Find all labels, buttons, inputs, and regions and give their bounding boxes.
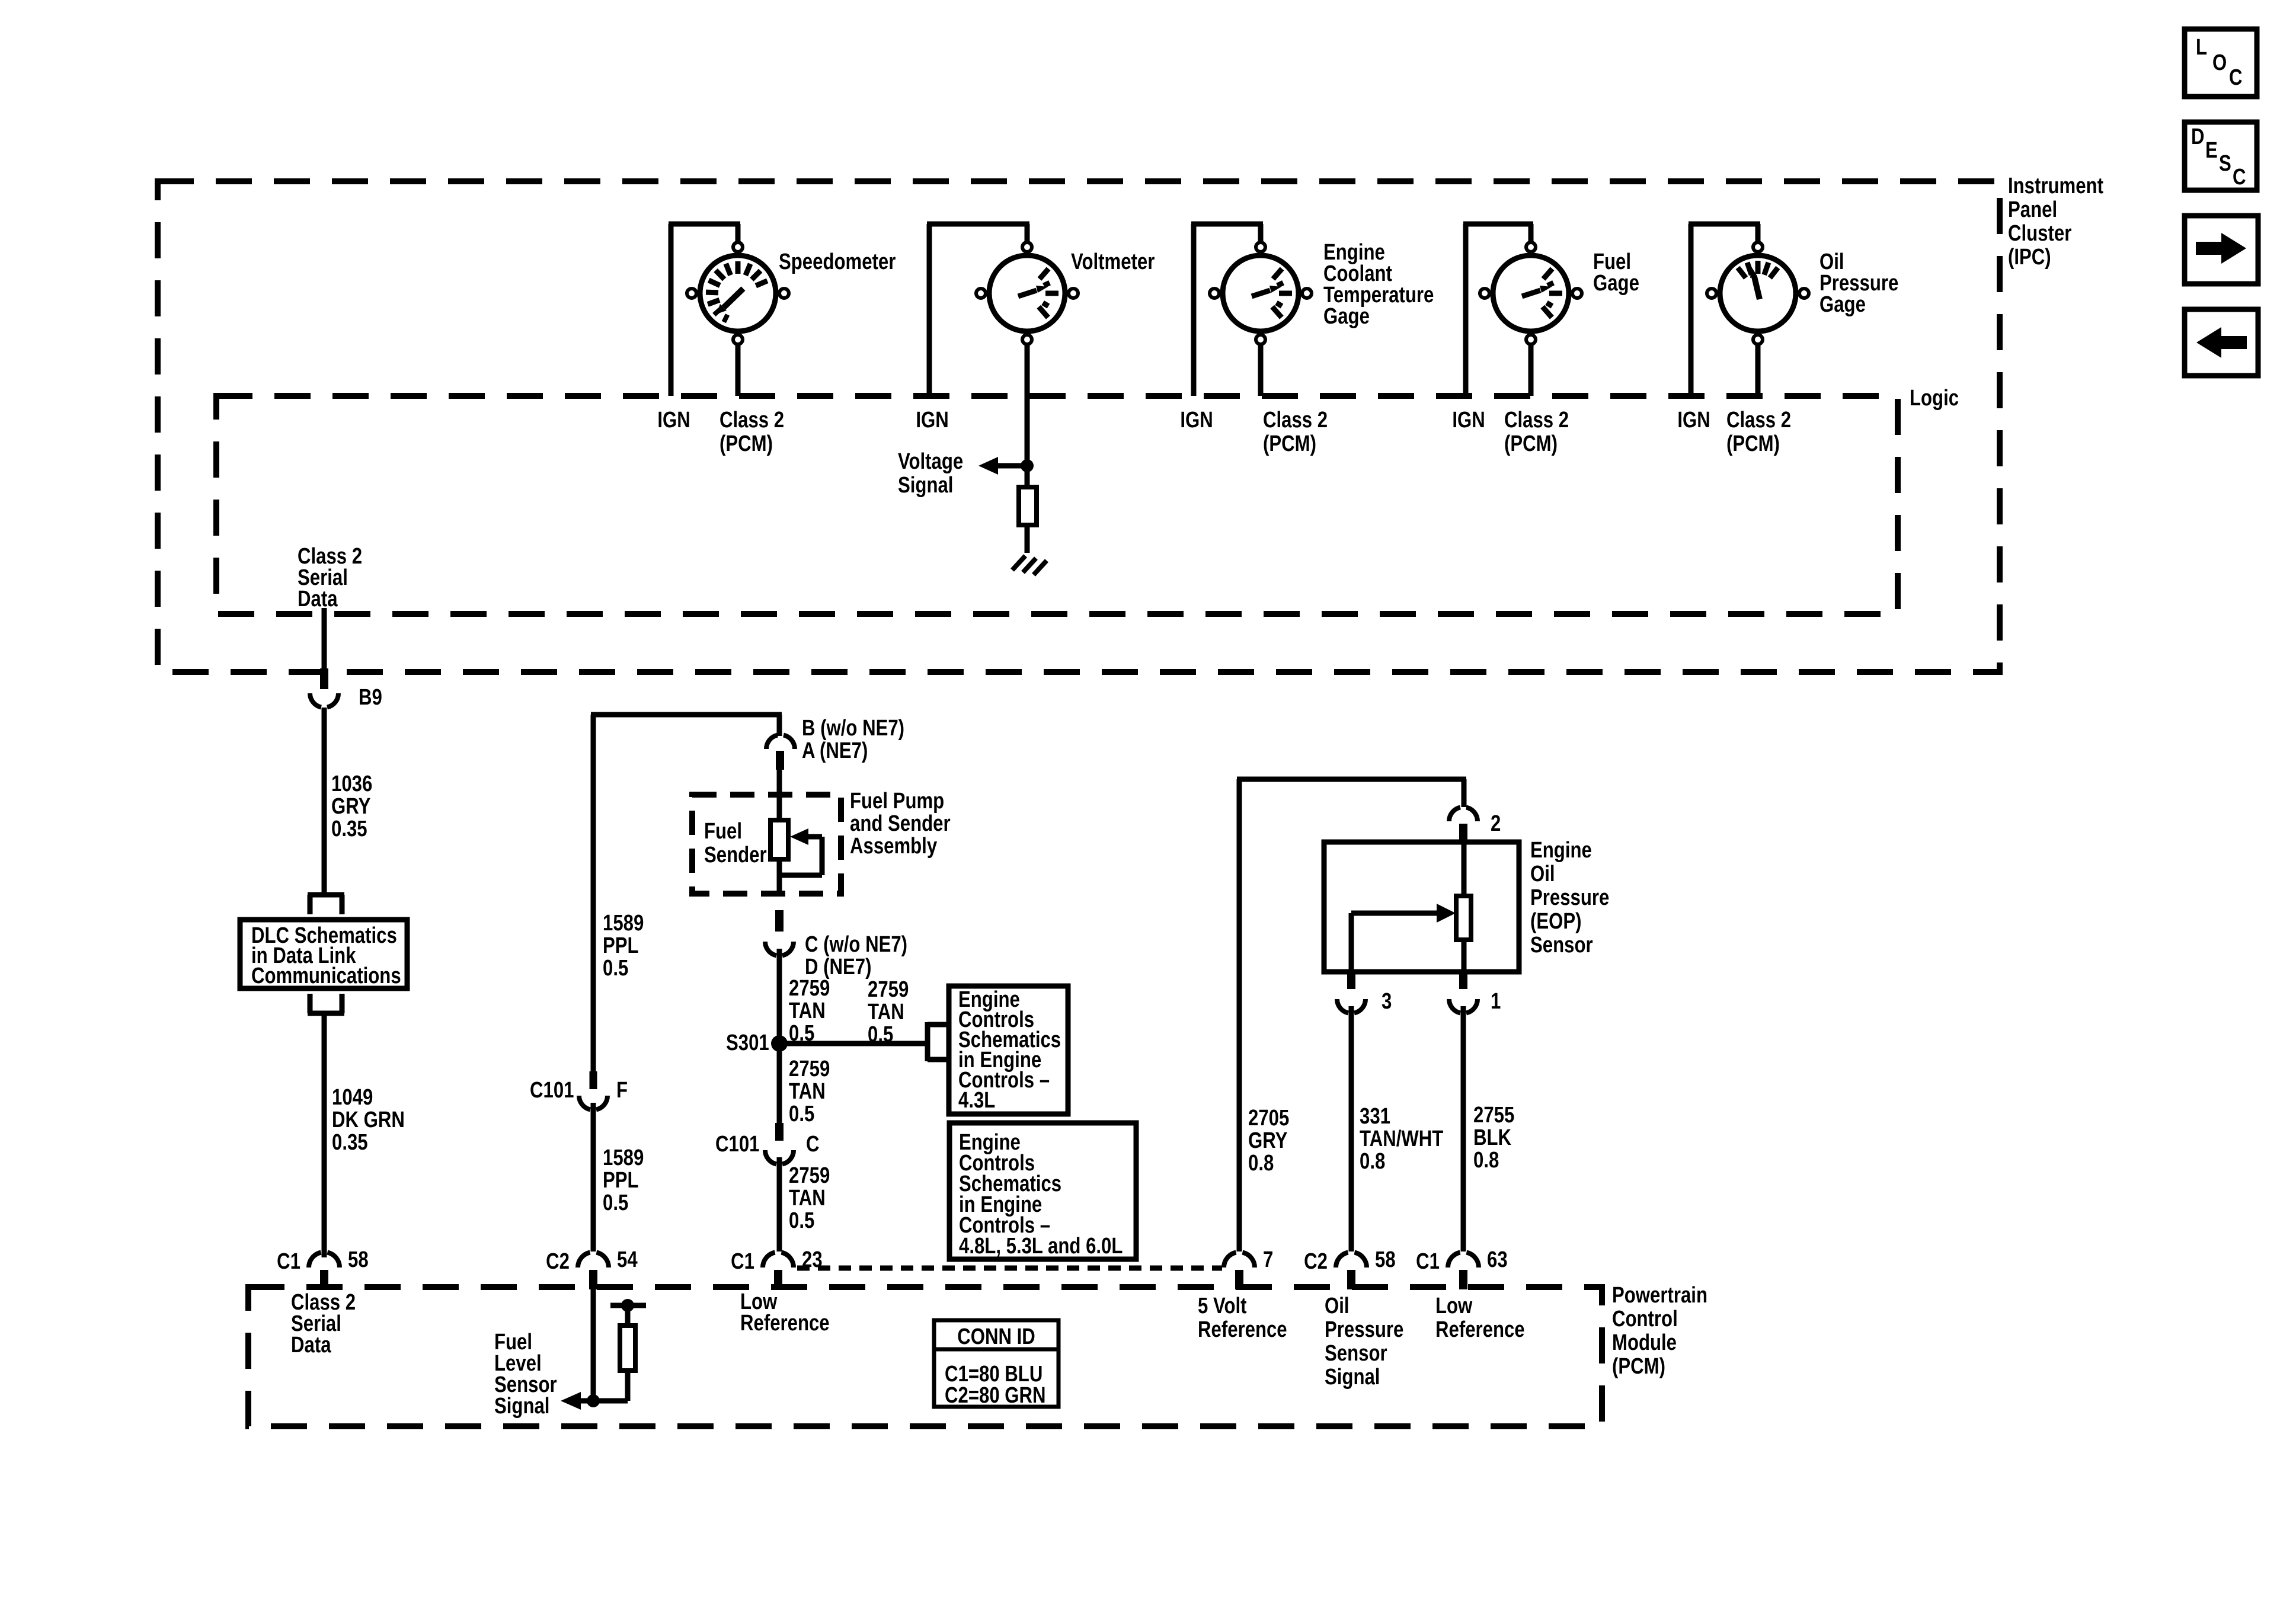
- svg-text:(PCM): (PCM): [1612, 1354, 1665, 1379]
- label: Powertrain Control Module (PCM): [1612, 1283, 1707, 1379]
- gauge Oil: [1707, 242, 1809, 344]
- svg-text:C2: C2: [546, 1249, 570, 1274]
- Logic dashed box inside IPC: [216, 396, 1898, 614]
- label: Class 2 (PCM) under ECT: [1263, 408, 1328, 456]
- connector 1 of EOP sensor: [1449, 974, 1478, 1013]
- svg-text:1036: 1036: [331, 772, 372, 796]
- svg-text:Module: Module: [1612, 1330, 1677, 1355]
- connector PCM pin C1 63: [1448, 1253, 1479, 1289]
- svg-text:Oil: Oil: [1325, 1294, 1350, 1318]
- svg-text:Engine: Engine: [1530, 838, 1592, 863]
- svg-text:Fuel: Fuel: [704, 819, 742, 844]
- svg-text:IGN: IGN: [1180, 408, 1213, 433]
- svg-text:(PCM): (PCM): [1504, 431, 1558, 456]
- svg-text:0.5: 0.5: [603, 1190, 628, 1215]
- wire: IGN feed for Fuel gauge: [1463, 224, 1533, 396]
- svg-text:(EOP): (EOP): [1530, 909, 1582, 934]
- svg-text:0.5: 0.5: [789, 1102, 814, 1126]
- label: 2 (EOP pin): [1491, 811, 1501, 836]
- wire: 2705 GRY 5 volt reference riser: [1237, 779, 1466, 1251]
- svg-text:0.35: 0.35: [331, 817, 367, 841]
- connector PCM pin C2 58: [1336, 1253, 1367, 1289]
- svg-text:TAN: TAN: [789, 1186, 826, 1211]
- svg-text:2759: 2759: [789, 1163, 830, 1188]
- svg-text:Reference: Reference: [1435, 1317, 1525, 1342]
- label: Oil Pressure Gage: [1819, 249, 1898, 317]
- label: pin 54: [617, 1247, 638, 1272]
- svg-text:TAN/WHT: TAN/WHT: [1360, 1126, 1443, 1151]
- wire: 1589 PPL from C101 to PCM C2-54: [591, 1103, 596, 1251]
- wire: bottom lead of Fuel gauge: [1528, 344, 1534, 396]
- svg-text:IGN: IGN: [1452, 408, 1485, 433]
- svg-text:3: 3: [1382, 989, 1392, 1014]
- label: Low Reference (C1-23): [740, 1289, 830, 1336]
- svg-text:TAN: TAN: [868, 1000, 904, 1025]
- connector C101 F pin: [590, 1071, 597, 1089]
- svg-text:331: 331: [1360, 1104, 1390, 1129]
- svg-text:Class 2: Class 2: [1726, 408, 1791, 433]
- gauge Fuel: [1480, 242, 1582, 344]
- wire: class 2 serial data from IPC logic: [322, 608, 327, 668]
- svg-text:2759: 2759: [789, 1057, 830, 1081]
- resistor: EOP sensing element: [1456, 842, 1471, 972]
- label: 1589 PPL 0.5 (lower): [603, 1145, 644, 1215]
- node: fuel level sensor signal junction: [587, 1394, 600, 1407]
- svg-text:2705: 2705: [1248, 1106, 1289, 1131]
- label: IGN (Fuel): [1452, 408, 1485, 433]
- svg-text:C: C: [2233, 165, 2246, 190]
- label: IGN (ECT): [1180, 408, 1213, 433]
- svg-text:2755: 2755: [1473, 1103, 1514, 1128]
- svg-text:Assembly: Assembly: [850, 834, 938, 859]
- svg-text:C (w/o NE7): C (w/o NE7): [805, 932, 907, 957]
- svg-text:7: 7: [1263, 1247, 1273, 1272]
- label: 1589 PPL 0.5 (upper): [603, 911, 644, 981]
- svg-text:(PCM): (PCM): [720, 431, 773, 456]
- connector C101 C: [765, 1150, 794, 1164]
- svg-text:F: F: [616, 1078, 628, 1103]
- label: B (w/o NE7) / A (NE7): [802, 716, 904, 763]
- svg-text:Communications: Communications: [251, 964, 401, 988]
- label: Class 2 (PCM) under Oil: [1726, 408, 1791, 456]
- wire: 2755 BLK from EOP-1 to PCM C1-63: [1461, 1006, 1466, 1251]
- svg-text:C2=80 GRN: C2=80 GRN: [945, 1383, 1046, 1408]
- svg-text:58: 58: [348, 1247, 369, 1272]
- label: Speedometer: [779, 249, 896, 274]
- ground: chassis ground below voltmeter resistor: [1012, 556, 1047, 575]
- label: Engine Oil Pressure (EOP) Sensor: [1530, 838, 1609, 958]
- label: Fuel Sender: [704, 819, 767, 868]
- svg-text:Panel: Panel: [2008, 197, 2057, 222]
- svg-text:Reference: Reference: [740, 1311, 830, 1336]
- wire: dashed link between PCM C1-23 and pin 7: [797, 1266, 1222, 1271]
- resistor: PCM fuel level pull-up: [593, 1299, 646, 1401]
- svg-text:(PCM): (PCM): [1726, 431, 1780, 456]
- label: pin 58: [1375, 1247, 1396, 1272]
- connector C101 F: [579, 1096, 607, 1110]
- icon box: DESC: [2185, 122, 2257, 190]
- wire: circuit 1049 DK GRN 0.35: [322, 1013, 327, 1257]
- connector B (w/o NE7) / A (NE7): [766, 735, 795, 770]
- wire: 331 TAN/WHT from EOP-3 to PCM C2-58: [1349, 1006, 1354, 1251]
- label: C2 (PCM connector): [546, 1249, 570, 1274]
- svg-text:C101: C101: [530, 1078, 574, 1103]
- Powertrain Control Module (PCM) dashed box: [248, 1287, 1602, 1426]
- label: C1 (PCM connector): [731, 1249, 754, 1274]
- label: IGN (Oil): [1677, 408, 1710, 433]
- svg-text:1589: 1589: [603, 1145, 644, 1170]
- connector 3 of EOP sensor: [1337, 974, 1366, 1013]
- label: pin 63: [1487, 1247, 1508, 1272]
- connector staple out of DLC box: [308, 994, 344, 1013]
- svg-text:Gage: Gage: [1593, 271, 1639, 296]
- svg-text:IGN: IGN: [657, 408, 690, 433]
- label: 1 (EOP pin): [1491, 989, 1501, 1014]
- box: Engine Controls Schematics in Engine Controls - 4.3L: [949, 986, 1068, 1114]
- resistor: fuel sender element: [770, 820, 788, 859]
- label: 2755 BLK 0.8: [1473, 1103, 1514, 1173]
- svg-text:1: 1: [1491, 989, 1501, 1014]
- box: Engine Controls Schematics in Engine Controls - 4.8L 5.3L 6.0L: [949, 1123, 1136, 1259]
- svg-text:E: E: [2205, 138, 2218, 163]
- connector PCM pin C1 58: [309, 1253, 340, 1289]
- svg-text:A (NE7): A (NE7): [802, 738, 868, 763]
- label: Engine Coolant Temperature Gage: [1323, 240, 1434, 329]
- label: B9: [359, 685, 382, 710]
- connector C (w/o NE7) / D (NE7): [765, 942, 794, 956]
- svg-text:(PCM): (PCM): [1263, 431, 1316, 456]
- svg-text:Fuel Pump: Fuel Pump: [850, 789, 944, 814]
- wire: bottom lead of Voltmeter gauge: [1025, 344, 1030, 466]
- connector PCM pin 7: [1224, 1253, 1255, 1289]
- box: Fuel Pump and Sender Assembly (dashed): [692, 795, 841, 894]
- wire: 2759 TAN from C/D to S301: [777, 949, 782, 1044]
- svg-text:0.8: 0.8: [1473, 1148, 1499, 1173]
- svg-text:Signal: Signal: [494, 1394, 549, 1419]
- label: 2759 TAN 0.5 (below S301): [789, 1057, 830, 1126]
- svg-text:PPL: PPL: [603, 1168, 639, 1193]
- svg-text:C: C: [2229, 65, 2243, 90]
- svg-text:IGN: IGN: [1677, 408, 1710, 433]
- label: Voltmeter: [1071, 249, 1155, 274]
- svg-text:Gage: Gage: [1323, 304, 1370, 329]
- wire: bottom lead of ECT gauge: [1258, 344, 1264, 396]
- Instrument Panel Cluster (IPC) dashed boundary box: [158, 181, 2000, 672]
- label: C (w/o NE7) / D (NE7): [805, 932, 907, 980]
- resistor: voltmeter internal resistor: [1019, 466, 1037, 553]
- svg-text:Class 2: Class 2: [1504, 408, 1569, 433]
- label: Class 2 (PCM) under Speedometer: [720, 408, 784, 456]
- svg-text:0.35: 0.35: [332, 1130, 368, 1155]
- svg-text:C1: C1: [1416, 1249, 1440, 1274]
- svg-text:L: L: [2196, 35, 2207, 60]
- wire: bottom lead of Speedometer gauge: [736, 344, 741, 396]
- svg-text:Sensor: Sensor: [1325, 1341, 1387, 1366]
- svg-text:Speedometer: Speedometer: [779, 249, 896, 274]
- wire: into fuel pump assembly: [777, 770, 782, 820]
- svg-text:Signal: Signal: [1325, 1365, 1380, 1390]
- connector bracket into 4.3L box: [928, 1022, 949, 1061]
- icon box: right arrow: [2185, 216, 2258, 284]
- svg-text:C1: C1: [731, 1249, 754, 1274]
- svg-text:Data: Data: [298, 587, 338, 612]
- label: 5 Volt Reference: [1198, 1294, 1287, 1342]
- wire: C2-54 into PCM: [591, 1289, 596, 1401]
- svg-text:2759: 2759: [789, 976, 830, 1001]
- wire: 2759 TAN from S301 to C101 C: [777, 1044, 782, 1123]
- svg-text:2: 2: [1491, 811, 1501, 836]
- svg-text:TAN: TAN: [789, 1079, 826, 1104]
- svg-text:O: O: [2212, 50, 2227, 75]
- label: IGN (Voltmeter): [916, 408, 948, 433]
- svg-text:4.8L, 5.3L and 6.0L: 4.8L, 5.3L and 6.0L: [959, 1234, 1123, 1259]
- connector C (w/o NE7) / D (NE7) pin: [775, 910, 784, 932]
- svg-text:B9: B9: [359, 685, 382, 710]
- svg-text:DK GRN: DK GRN: [332, 1108, 405, 1132]
- label: Logic: [1910, 386, 1959, 411]
- connector C101 C pin: [775, 1123, 784, 1141]
- label: 3 (EOP pin): [1382, 989, 1392, 1014]
- svg-text:Cluster: Cluster: [2008, 221, 2071, 246]
- svg-text:Logic: Logic: [1910, 386, 1959, 411]
- svg-text:54: 54: [617, 1247, 638, 1272]
- svg-text:0.8: 0.8: [1360, 1149, 1385, 1174]
- box: DLC Schematics in Data Link Communications: [240, 920, 407, 988]
- label: S301: [726, 1030, 769, 1055]
- wire: IGN feed for ECT gauge: [1191, 224, 1263, 396]
- label: Class 2 Serial Data (PCM): [291, 1290, 356, 1358]
- label: C1 (PCM connector): [1416, 1249, 1440, 1274]
- label: C101 / F: [530, 1078, 628, 1103]
- wire: 2759 TAN from S301 to engine controls 4.3L: [779, 1041, 928, 1046]
- svg-text:1589: 1589: [603, 911, 644, 936]
- svg-text:GRY: GRY: [1248, 1128, 1287, 1153]
- connector PCM pin C2 54: [578, 1253, 609, 1289]
- label: Fuel Gage: [1593, 249, 1639, 296]
- label: Instrument Panel Cluster (IPC): [2008, 174, 2103, 270]
- label: 2759 TAN 0.5 (to 4.3L): [868, 977, 909, 1047]
- svg-text:D: D: [2191, 124, 2205, 149]
- svg-text:0.8: 0.8: [1248, 1151, 1274, 1176]
- svg-text:Pressure: Pressure: [1530, 885, 1609, 910]
- svg-text:GRY: GRY: [331, 794, 370, 819]
- svg-text:Class 2: Class 2: [720, 408, 784, 433]
- svg-text:C: C: [806, 1132, 820, 1157]
- svg-text:Powertrain: Powertrain: [1612, 1283, 1707, 1308]
- connector staple into DLC box: [308, 895, 344, 914]
- label: 1049 DK GRN 0.35: [332, 1085, 405, 1155]
- wire: IGN feed for Voltmeter gauge: [927, 224, 1029, 396]
- label: Fuel Pump and Sender Assembly: [850, 789, 951, 859]
- svg-text:0.5: 0.5: [789, 1208, 814, 1233]
- wire: fuel level sensor signal arrow: [561, 1392, 593, 1410]
- wire: IGN feed for Oil gauge: [1689, 224, 1760, 396]
- connector B9: [310, 693, 338, 708]
- svg-text:Sensor: Sensor: [1530, 933, 1593, 958]
- label: C101 / C: [715, 1132, 820, 1157]
- svg-text:S301: S301: [726, 1030, 769, 1055]
- wire: circuit 1036 GRY 0.35: [322, 708, 327, 895]
- label: pin 23: [802, 1247, 823, 1272]
- svg-text:58: 58: [1375, 1247, 1396, 1272]
- label: C1 (PCM connector): [277, 1249, 300, 1274]
- svg-text:Data: Data: [291, 1333, 331, 1358]
- svg-text:5 Volt: 5 Volt: [1198, 1294, 1247, 1318]
- wire: IGN feed for Speedometer gauge: [669, 224, 740, 396]
- svg-text:(IPC): (IPC): [2008, 245, 2051, 270]
- label: 2759 TAN 0.5 (above S301): [789, 976, 830, 1046]
- svg-text:Signal: Signal: [898, 473, 953, 498]
- label: 331 TAN/WHT 0.8: [1360, 1104, 1443, 1174]
- svg-text:Voltmeter: Voltmeter: [1071, 249, 1155, 274]
- label: IGN (Speedometer): [657, 408, 690, 433]
- svg-text:Class 2: Class 2: [1263, 408, 1328, 433]
- svg-text:Reference: Reference: [1198, 1317, 1287, 1342]
- label: pin 7: [1263, 1247, 1273, 1272]
- wire: 2759 TAN from C101 to PCM C1-23: [777, 1157, 782, 1251]
- wire: fuel sender wiper arm with arrow: [777, 828, 822, 896]
- label: Fuel Level Sensor Signal: [494, 1330, 557, 1419]
- icon box: left arrow: [2185, 309, 2258, 376]
- splice S301: [771, 1035, 788, 1052]
- label: Oil Pressure Sensor Signal: [1325, 1294, 1403, 1390]
- icon box: LOC: [2185, 29, 2257, 97]
- svg-text:CONN ID: CONN ID: [957, 1324, 1035, 1349]
- svg-text:C2: C2: [1304, 1249, 1328, 1274]
- svg-text:0.5: 0.5: [603, 956, 628, 981]
- wire: 1589 PPL riser to fuel sender: [591, 715, 782, 1071]
- svg-text:PPL: PPL: [603, 933, 639, 958]
- svg-text:1049: 1049: [332, 1085, 373, 1110]
- connector PCM pin C1 23: [763, 1253, 794, 1289]
- svg-text:C101: C101: [715, 1132, 759, 1157]
- svg-text:Pressure: Pressure: [1325, 1317, 1403, 1342]
- label: 2705 GRY 0.8: [1248, 1106, 1289, 1176]
- svg-text:Oil: Oil: [1530, 862, 1555, 886]
- label: Class 2 (PCM) under Fuel: [1504, 408, 1569, 456]
- node: voltage signal junction: [1021, 459, 1034, 472]
- label: 1036 GRY 0.35: [331, 772, 372, 841]
- svg-text:63: 63: [1487, 1247, 1508, 1272]
- svg-text:Control: Control: [1612, 1307, 1678, 1331]
- svg-text:Sender: Sender: [704, 843, 767, 868]
- svg-text:BLK: BLK: [1473, 1125, 1511, 1150]
- svg-text:Gage: Gage: [1819, 292, 1866, 317]
- svg-text:0.5: 0.5: [868, 1022, 893, 1047]
- svg-text:Low: Low: [1435, 1294, 1473, 1318]
- label: Low Reference (C1-63): [1435, 1294, 1525, 1342]
- label: C2 (PCM connector): [1304, 1249, 1328, 1274]
- svg-text:B (w/o NE7): B (w/o NE7): [802, 716, 904, 741]
- svg-text:Voltage: Voltage: [898, 449, 963, 474]
- wire: bottom lead of Oil gauge: [1755, 344, 1761, 396]
- box: CONN ID legend: [934, 1320, 1059, 1408]
- svg-text:S: S: [2219, 151, 2231, 176]
- gauge Voltmeter: [976, 242, 1078, 344]
- wire: EOP wiper arm with arrow: [1351, 904, 1456, 972]
- wire: voltage signal arrow: [978, 457, 1027, 475]
- label: Voltage Signal: [898, 449, 963, 498]
- svg-text:IGN: IGN: [916, 408, 948, 433]
- box: Engine Oil Pressure (EOP) Sensor: [1324, 842, 1519, 972]
- label: 2759 TAN 0.5 (below C101): [789, 1163, 830, 1233]
- connector B9 pin: [320, 668, 328, 689]
- connector 2 of EOP sensor: [1449, 808, 1478, 843]
- label: pin 58: [348, 1247, 369, 1272]
- svg-text:and Sender: and Sender: [850, 811, 951, 836]
- svg-text:C1: C1: [277, 1249, 300, 1274]
- svg-text:4.3L: 4.3L: [958, 1088, 995, 1113]
- label: Class 2 Serial Data (inside Logic box): [298, 544, 362, 612]
- svg-text:TAN: TAN: [789, 998, 826, 1023]
- gauge Speedometer: [687, 242, 789, 344]
- gauge ECT: [1210, 242, 1312, 344]
- svg-text:2759: 2759: [868, 977, 909, 1002]
- svg-text:Instrument: Instrument: [2008, 174, 2103, 199]
